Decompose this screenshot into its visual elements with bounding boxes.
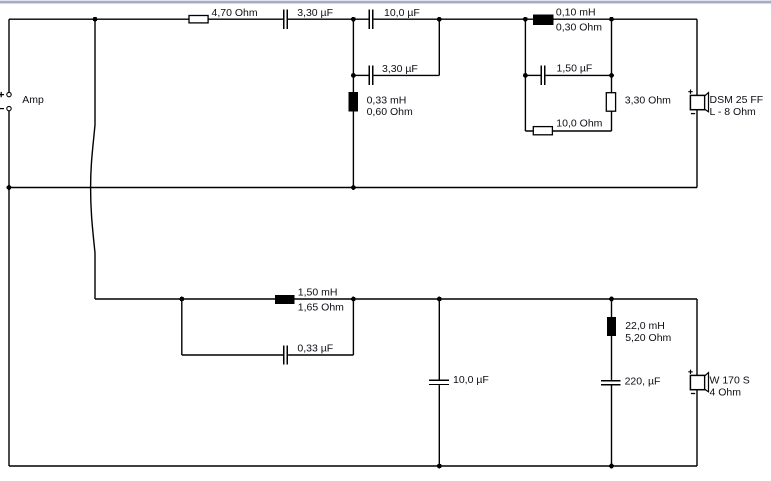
wire node1 vertical x353 — [352, 19, 354, 187]
svg-text:0,60 Ohm: 0,60 Ohm — [367, 106, 413, 118]
capacitor 1,50 uF plates — [541, 66, 542, 85]
capacitor 0,33 uF plates — [283, 345, 284, 364]
node top junction x611 — [609, 17, 614, 22]
node return junction x9 — [7, 185, 12, 190]
wire right vertical woofer top — [696, 299, 698, 375]
wire shunt cap 10uF top — [438, 299, 440, 380]
speaker W plus sign — [688, 370, 692, 374]
amp plus terminal — [7, 92, 11, 96]
svg-text:DSM 25 FF: DSM 25 FF — [710, 94, 764, 106]
svg-text:0,10 mH: 0,10 mH — [556, 7, 596, 19]
wire woofer parallel branch right of cap — [288, 354, 353, 356]
wire left vertical from amp minus down to bottom wire — [8, 111, 10, 466]
wire mid row left of cap 3,30uF — [353, 74, 368, 76]
speaker W 170 S cone — [705, 373, 709, 392]
node woofer junction x439 — [437, 297, 442, 302]
svg-text:3,30 µF: 3,30 µF — [382, 63, 418, 75]
node top junction x525 — [523, 17, 528, 22]
wire mid row right of cap 3,30uF — [374, 74, 440, 76]
resistor 3,30 Ohm body — [606, 93, 615, 112]
node top junction x439 — [437, 17, 442, 22]
svg-text:10,0 µF: 10,0 µF — [384, 7, 420, 19]
svg-text:1,50 µF: 1,50 µF — [557, 62, 593, 74]
resistor 10,0 Ohm body — [533, 127, 552, 135]
amp plus sign — [0, 92, 4, 97]
inductor 1,50 mH body — [275, 295, 295, 304]
toolbar bottom edge bar — [0, 0, 771, 1]
node mid junction x611 — [609, 73, 614, 78]
wire top return — [9, 187, 697, 189]
svg-text:W 170 S: W 170 S — [710, 374, 750, 386]
svg-text:L - 8 Ohm: L - 8 Ohm — [710, 106, 757, 118]
wire x439 vertical — [438, 19, 440, 75]
amp minus sign — [0, 108, 4, 110]
inductor 0,33 mH body — [349, 92, 359, 112]
node woofer junction x353 — [351, 297, 356, 302]
wire shunt L+C top — [611, 299, 613, 380]
wire bottom return — [9, 465, 697, 467]
node mid junction x525 — [523, 73, 528, 78]
wire x525 vertical — [524, 19, 526, 131]
speaker DSM 25 FF box — [690, 95, 704, 109]
wire shunt L+C bottom — [611, 385, 613, 466]
wire woofer parallel branch right vertical — [352, 299, 354, 355]
wire top main left segment — [9, 18, 283, 20]
node mid junction x353 — [351, 73, 356, 78]
wire tweeter bottom branch — [525, 130, 611, 132]
node top junction x353 — [351, 17, 356, 22]
capacitor 3,30 uF series plates — [283, 10, 284, 29]
svg-text:0,33 µF: 0,33 µF — [297, 343, 333, 355]
svg-text:Amp: Amp — [22, 94, 44, 106]
speaker DSM plus sign — [688, 90, 692, 94]
amp minus terminal — [7, 106, 11, 110]
capacitor 10,0 uF series plates — [369, 10, 370, 29]
svg-text:0,33 mH: 0,33 mH — [367, 95, 407, 107]
wire top main mid segment — [288, 18, 369, 20]
wire mid row left of cap 1,50uF — [525, 74, 540, 76]
speaker DSM 25 FF cone — [705, 93, 709, 112]
wire shunt cap 10uF bottom — [438, 385, 440, 466]
svg-text:10,0 µF: 10,0 µF — [453, 374, 489, 386]
inductor 22,0 mH body — [607, 317, 616, 336]
wire woofer main — [95, 298, 697, 300]
wire right vertical woofer bottom — [696, 389, 698, 466]
svg-text:3,30 µF: 3,30 µF — [297, 7, 333, 19]
speaker W minus sign — [691, 393, 695, 395]
svg-text:1,65 Ohm: 1,65 Ohm — [298, 302, 344, 314]
svg-text:3,30 Ohm: 3,30 Ohm — [625, 94, 671, 106]
wire woofer parallel branch left vertical — [181, 299, 183, 355]
wire left vertical from amp plus up to top wire — [8, 19, 10, 92]
capacitor 220 uF plates — [601, 380, 621, 381]
svg-text:10,0 Ohm: 10,0 Ohm — [556, 117, 602, 129]
wire top main right segment — [374, 18, 697, 20]
node top junction x95 — [93, 17, 98, 22]
speaker DSM minus sign — [691, 113, 695, 115]
node woofer junction x181 — [179, 297, 184, 302]
capacitor 10,0 uF shunt plates — [429, 380, 449, 381]
node woofer junction x611 — [609, 297, 614, 302]
resistor 4,70 Ohm — [189, 16, 208, 23]
svg-text:1,50 mH: 1,50 mH — [298, 287, 338, 299]
svg-text:4 Ohm: 4 Ohm — [710, 386, 742, 398]
svg-text:4,70 Ohm: 4,70 Ohm — [212, 7, 258, 19]
wire curved no-connect drop to woofer section — [91, 19, 95, 299]
svg-text:220, µF: 220, µF — [625, 376, 661, 388]
wire woofer parallel branch left of cap — [182, 354, 283, 356]
capacitor 3,30 uF mid plates — [369, 66, 370, 85]
inductor 0,10 mH body — [533, 14, 553, 25]
svg-text:5,20 Ohm: 5,20 Ohm — [625, 332, 671, 344]
node return junction x353 — [351, 185, 356, 190]
svg-text:22,0 mH: 22,0 mH — [625, 320, 665, 332]
wire right vertical tweeter bottom — [696, 109, 698, 187]
svg-text:0,30 Ohm: 0,30 Ohm — [556, 22, 602, 34]
node bottom junction x611 — [609, 464, 614, 469]
node bottom junction x439 — [437, 464, 442, 469]
speaker W 170 S box — [690, 375, 704, 389]
wire mid row right of cap 1,50uF — [546, 74, 612, 76]
wire right vertical tweeter top — [696, 19, 698, 95]
wire x611 vertical — [611, 19, 613, 131]
